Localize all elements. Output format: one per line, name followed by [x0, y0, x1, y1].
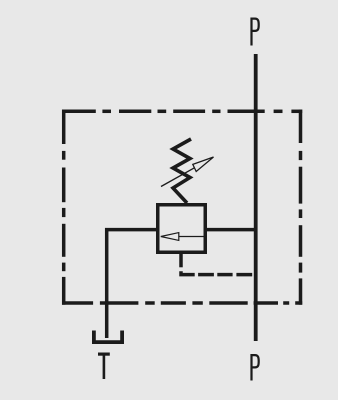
- valve flow arrow head (open, pointing left): [161, 233, 179, 241]
- valve flow arrow shaft (inside body): [179, 236, 206, 238]
- node T (label): [98, 354, 110, 379]
- node P (top label): [252, 19, 259, 46]
- enclosure boundary bottom (dash-dot): [62, 301, 302, 305]
- tank symbol: [94, 331, 122, 343]
- wire P main vertical line: [254, 54, 258, 341]
- wire valve to tank (left + down): [107, 230, 157, 338]
- spring (zigzag): [173, 139, 191, 203]
- pilot line (dashed, valve bottom to P line): [181, 253, 252, 275]
- enclosure boundary left (dash-dot): [62, 110, 66, 305]
- enclosure boundary right (dash-dot): [299, 110, 303, 305]
- valve body square V1: [158, 205, 206, 253]
- adjustment arrow head (open): [193, 157, 214, 172]
- enclosure boundary top (dash-dot): [62, 110, 302, 114]
- adjustment arrow shaft across spring: [161, 168, 194, 187]
- node P (bottom label): [252, 355, 259, 380]
- wire valve to P line (right): [207, 228, 258, 232]
